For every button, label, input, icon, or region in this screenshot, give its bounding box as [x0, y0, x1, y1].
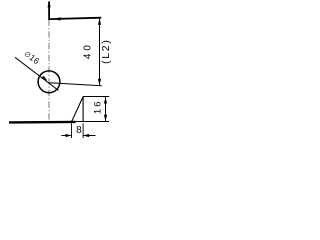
dim 8 left tail line: [62, 135, 72, 137]
leader arrowhead: [41, 76, 47, 81]
dimension line 16 vertical: [105, 97, 107, 122]
dimension line 40/(L2) vertical: [99, 18, 101, 85]
dim 8 left extension line: [71, 123, 73, 138]
svg-text:∅16: ∅16: [22, 48, 41, 66]
leader line for d16: [15, 57, 59, 90]
bottom extension line of dim 40: [49, 83, 102, 86]
dim 16 bottom arrowhead: [104, 115, 107, 122]
dim 8 left arrowhead pointing right: [66, 134, 72, 137]
left-pointing arrow on top line: [54, 17, 61, 20]
dim 16 top arrowhead: [104, 97, 107, 104]
triangle hypotenuse: [72, 97, 84, 122]
top horizontal thick line: [48, 18, 101, 19]
dim 40 top arrowhead: [98, 18, 101, 25]
up arrow at top of centerline: [48, 1, 51, 8]
dim 8 right extension line: [82, 123, 84, 138]
dim 8 right arrowhead pointing left: [83, 134, 89, 137]
svg-text:16: 16: [93, 100, 104, 115]
baseline thick: [9, 121, 76, 124]
dim 40 bottom arrowhead: [98, 79, 101, 86]
vertical centerline: [48, 20, 50, 122]
triangle vertical side: [82, 97, 84, 122]
dim 8 right tail line: [83, 135, 95, 137]
top extension line of dim 16: [83, 96, 109, 98]
svg-text:40: 40: [82, 42, 93, 59]
baseline thin continuation: [76, 121, 110, 123]
circle d16: [38, 71, 60, 93]
svg-text:(L2): (L2): [100, 38, 112, 63]
svg-text:8: 8: [76, 125, 82, 136]
arrow shaft: [48, 2, 50, 20]
